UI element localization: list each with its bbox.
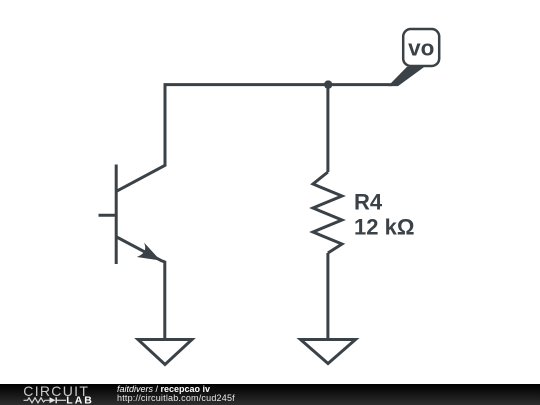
svg-text:vo: vo [408, 36, 434, 61]
svg-text:LAB: LAB [66, 394, 94, 405]
svg-text:R4: R4 [354, 190, 383, 215]
svg-text:12 kΩ: 12 kΩ [354, 215, 414, 240]
